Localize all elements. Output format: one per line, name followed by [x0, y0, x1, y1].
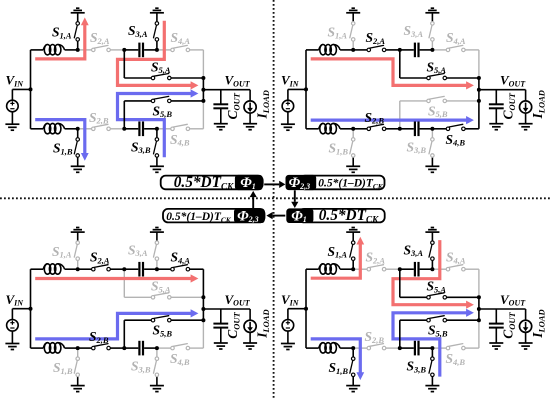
wire: S5B segment, closed (Q1 top-left, phase P1)	[123, 101, 125, 129]
wire: S5B segment, closed (Q4 bottom-right, phase P1)	[399, 320, 401, 348]
current source I_LOAD (Q3 bottom-left, phase P3)	[249, 309, 251, 320]
ground (V_IN) (Q4 bottom-right, phase P1)	[281, 343, 295, 345]
blue current path (Q4 bottom-right, phase P1)	[393, 313, 468, 377]
blue current path (Q2 top-right, phase P2)	[311, 118, 468, 121]
inductor L_A (Q1 top-left, phase P1)	[31, 49, 44, 51]
inductor L_B (Q1 top-left, phase P1)	[31, 128, 44, 130]
capacitor C_OUT (Q3 bottom-left, phase P3)	[220, 309, 222, 324]
switch S5A contacts (Q3 bottom-left, phase P3)	[151, 296, 155, 300]
switch S4A contacts (Q3 bottom-left, phase P3)	[171, 267, 175, 271]
inductor L_B (Q3 bottom-left, phase P3)	[31, 347, 44, 349]
inductor L_B (Q4 bottom-right, phase P1)	[306, 347, 319, 349]
wire: S2B segment, closed (Q3 bottom-left, phase P3)	[78, 347, 94, 349]
switch S1A (Q4 bottom-right, phase P1)	[352, 261, 354, 270]
switch S2B contacts (Q1 top-left, phase P1)	[92, 127, 96, 131]
ground (I_LOAD) (Q1 top-left, phase P1)	[243, 123, 257, 125]
wire: output node (Q1 top-left, phase P1)	[202, 78, 204, 101]
ground (S1B) (Q2 top-right, phase P2)	[346, 165, 360, 167]
ground (S1B) (Q4 bottom-right, phase P1)	[346, 385, 360, 387]
label C_OUT (Q3 bottom-left, phase P3)	[225, 312, 241, 339]
switch S1A (Q1 top-left, phase P1)	[77, 41, 79, 50]
switch S1B (Q3 bottom-left, phase P3)	[77, 348, 79, 357]
wire: input left rail (Q1 top-left, phase P1)	[30, 50, 32, 129]
switch S2B contacts (Q3 bottom-left, phase P3)	[92, 346, 96, 350]
dotted divider horizontal	[0, 197, 550, 199]
label I_LOAD (Q2 top-right, phase P2)	[530, 90, 546, 119]
blue current path (Q1 top-left, phase P1)	[118, 94, 193, 158]
wire: S5A segment, open (Q3 bottom-left, phase P3)	[123, 269, 125, 297]
switch S1B (Q1 top-left, phase P1)	[77, 129, 79, 138]
ground (S3B) (Q4 bottom-right, phase P1)	[425, 385, 439, 387]
wire: S2B segment, open (Q4 bottom-right, phase P1)	[353, 347, 369, 349]
capacitor C_B flying cap (Q3 bottom-left, phase P3)	[124, 347, 138, 349]
ground (C_OUT) (Q1 top-left, phase P1)	[214, 123, 228, 125]
wire: input left rail (Q2 top-right, phase P2)	[305, 50, 307, 129]
ground (C_OUT) (Q2 top-right, phase P2)	[489, 123, 503, 125]
wire: output node (Q3 bottom-left, phase P3)	[202, 297, 204, 320]
current source I_LOAD (Q2 top-right, phase P2)	[525, 90, 527, 101]
switch S4B contacts (Q2 top-right, phase P2)	[446, 127, 450, 131]
wire: S5A segment, closed (Q2 top-right, phase P2)	[399, 50, 401, 78]
wire: input left rail (Q4 bottom-right, phase P1)	[305, 269, 307, 348]
blue current path (Q4 bottom-right, phase P1)	[311, 339, 361, 373]
wire: input left rail (Q3 bottom-left, phase P3)	[30, 269, 32, 348]
switch S4B contacts (Q1 top-left, phase P1)	[171, 127, 175, 131]
switch S3B (Q2 top-right, phase P2)	[431, 129, 433, 138]
clock phase box: 0.5*(1-D)T_CK + PHI2,3 (bottom-left)	[163, 209, 265, 223]
switch S3A (Q3 bottom-left, phase P3)	[156, 261, 158, 270]
capacitor C_A flying cap (Q3 bottom-left, phase P3)	[124, 268, 138, 270]
current source I_LOAD (Q4 bottom-right, phase P1)	[525, 309, 527, 320]
clock phase box: PHI2,3 + 0.5*(1-D)T_CK (top-right)	[300, 176, 385, 190]
ground (S1A) (Q1 top-left, phase P1)	[71, 12, 85, 14]
red current path (Q1 top-left, phase P1)	[118, 21, 193, 86]
label I_LOAD (Q1 top-left, phase P1)	[255, 90, 271, 119]
clock phase box: 0.5*DT_CK + PHI1 (top-left)	[161, 176, 263, 190]
voltage source V_IN (Q4 bottom-right, phase P1)	[287, 309, 289, 320]
wire: output node (Q2 top-right, phase P2)	[478, 78, 480, 101]
switch S4A contacts (Q4 bottom-right, phase P1)	[446, 267, 450, 271]
wire: S2B segment, open (Q1 top-left, phase P1)	[78, 128, 94, 130]
switch S4B contacts (Q4 bottom-right, phase P1)	[446, 346, 450, 350]
ground (C_OUT) (Q3 bottom-left, phase P3)	[214, 342, 228, 344]
switch S2A contacts (Q2 top-right, phase P2)	[367, 48, 371, 52]
ground (S1A) (Q4 bottom-right, phase P1)	[346, 231, 360, 233]
cycle arrow up (PHI2,3 -> PHI1)	[252, 197, 254, 208]
voltage source V_IN (Q2 top-right, phase P2)	[287, 89, 289, 100]
label I_LOAD (Q3 bottom-left, phase P3)	[255, 309, 271, 338]
capacitor C_B flying cap (Q4 bottom-right, phase P1)	[400, 347, 414, 349]
switch S1A (Q3 bottom-left, phase P3)	[77, 261, 79, 270]
voltage source V_IN (Q1 top-left, phase P1)	[11, 89, 13, 100]
wire: S2A segment, closed (Q3 bottom-left, phase P3)	[78, 268, 94, 270]
junction nodes (Q4 bottom-right, phase P1)	[304, 307, 308, 311]
quadrant Q2 top-right, phase P2	[281, 8, 547, 172]
junction nodes (Q3 bottom-left, phase P3)	[29, 307, 33, 311]
ground (S3B) (Q1 top-left, phase P1)	[150, 165, 164, 167]
switch S3B (Q1 top-left, phase P1)	[156, 129, 158, 138]
ground (I_LOAD) (Q3 bottom-left, phase P3)	[243, 342, 257, 344]
wire: S4A segment, open (Q1 top-left, phase P1)	[157, 49, 173, 51]
capacitor C_OUT (Q4 bottom-right, phase P1)	[495, 309, 497, 324]
switch S3A (Q2 top-right, phase P2)	[431, 41, 433, 50]
switch S5A contacts (Q2 top-right, phase P2)	[427, 76, 431, 80]
capacitor C_A flying cap (Q1 top-left, phase P1)	[124, 49, 138, 51]
red current path (Q3 bottom-left, phase P3)	[35, 277, 192, 280]
red current path (Q4 bottom-right, phase P1)	[311, 244, 361, 279]
junction nodes (Q1 top-left, phase P1)	[29, 87, 33, 91]
wire: S2A segment, closed (Q2 top-right, phase P2)	[353, 49, 369, 51]
wire: S4A segment, open (Q2 top-right, phase P2)	[432, 49, 448, 51]
switch S5B contacts (Q4 bottom-right, phase P1)	[427, 318, 431, 322]
switch S2B contacts (Q4 bottom-right, phase P1)	[367, 346, 371, 350]
inductor L_B (Q2 top-right, phase P2)	[306, 128, 319, 130]
switch S3A (Q1 top-left, phase P1)	[156, 41, 158, 50]
junction nodes (Q2 top-right, phase P2)	[304, 87, 308, 91]
cycle arrow down (PHI2,3 -> PHI1)	[294, 190, 296, 202]
blue current path (Q1 top-left, phase P1)	[35, 120, 85, 154]
wire: S2A segment, open (Q1 top-left, phase P1)	[78, 49, 94, 51]
inductor L_A (Q2 top-right, phase P2)	[306, 49, 319, 51]
switch S4A contacts (Q2 top-right, phase P2)	[446, 48, 450, 52]
ground (S1B) (Q3 bottom-left, phase P3)	[71, 385, 85, 387]
clock phase box: PHI1 + 0.5*DT_CK (bottom-right)	[299, 209, 385, 223]
capacitor C_A flying cap (Q4 bottom-right, phase P1)	[400, 268, 414, 270]
ground (I_LOAD) (Q2 top-right, phase P2)	[519, 123, 533, 125]
wire: S4A segment, closed (Q3 bottom-left, phase P3)	[157, 268, 173, 270]
wire: S5A segment, closed (Q1 top-left, phase P1)	[123, 50, 125, 78]
switch S1B (Q2 top-right, phase P2)	[352, 129, 354, 138]
quadrant Q1 top-left, phase P1	[5, 8, 271, 172]
label I_LOAD (Q4 bottom-right, phase P1)	[530, 309, 546, 338]
switch S2A contacts (Q3 bottom-left, phase P3)	[92, 267, 96, 271]
red current path (Q2 top-right, phase P2)	[311, 59, 468, 86]
wire: S4A segment, open (Q4 bottom-right, phase P1)	[432, 268, 448, 270]
cycle arrow left (PHI1 -> PHI2,3)	[273, 215, 286, 217]
blue current path (Q3 bottom-left, phase P3)	[35, 313, 192, 339]
switch S1B (Q4 bottom-right, phase P1)	[352, 348, 354, 357]
label C_OUT (Q1 top-left, phase P1)	[225, 92, 241, 119]
capacitor C_B flying cap (Q2 top-right, phase P2)	[400, 128, 414, 130]
ground (S3A) (Q3 bottom-left, phase P3)	[150, 231, 164, 233]
wire: S2B segment, closed (Q2 top-right, phase P2)	[353, 128, 369, 130]
ground (S3B) (Q2 top-right, phase P2)	[425, 165, 439, 167]
capacitor C_B flying cap (Q1 top-left, phase P1)	[124, 128, 138, 130]
current source I_LOAD (Q1 top-left, phase P1)	[249, 90, 251, 101]
switch S3A (Q4 bottom-right, phase P1)	[431, 261, 433, 270]
wire: S5A segment, closed (Q4 bottom-right, phase P1)	[399, 269, 401, 297]
quadrant Q4 bottom-right, phase P1	[281, 228, 547, 392]
switch S2A contacts (Q1 top-left, phase P1)	[92, 48, 96, 52]
ground (I_LOAD) (Q4 bottom-right, phase P1)	[519, 342, 533, 344]
wire: output node (Q4 bottom-right, phase P1)	[478, 297, 480, 320]
capacitor C_OUT (Q1 top-left, phase P1)	[220, 90, 222, 105]
inductor L_A (Q4 bottom-right, phase P1)	[306, 268, 319, 270]
ground (C_OUT) (Q4 bottom-right, phase P1)	[489, 342, 503, 344]
switch S2A contacts (Q4 bottom-right, phase P1)	[367, 267, 371, 271]
ground (V_IN) (Q2 top-right, phase P2)	[281, 123, 295, 125]
ground (S3A) (Q2 top-right, phase P2)	[425, 12, 439, 14]
switch S5B contacts (Q1 top-left, phase P1)	[151, 99, 155, 103]
ground (V_IN) (Q1 top-left, phase P1)	[5, 123, 19, 125]
switch S4A contacts (Q1 top-left, phase P1)	[171, 48, 175, 52]
label C_OUT (Q4 bottom-right, phase P1)	[501, 312, 517, 339]
wire: S4B segment, closed (Q2 top-right, phase P2)	[432, 128, 448, 130]
switch S5B contacts (Q3 bottom-left, phase P3)	[151, 318, 155, 322]
cycle arrow right (PHI1 -> PHI2,3)	[264, 183, 279, 185]
wire: S4B segment, open (Q3 bottom-left, phase P3)	[157, 347, 173, 349]
switch S2B contacts (Q2 top-right, phase P2)	[367, 127, 371, 131]
capacitor C_A flying cap (Q2 top-right, phase P2)	[400, 49, 414, 51]
quadrant Q3 bottom-left, phase P3	[5, 228, 271, 392]
switch S4B contacts (Q3 bottom-left, phase P3)	[171, 346, 175, 350]
ground (S3B) (Q3 bottom-left, phase P3)	[150, 385, 164, 387]
wire: S5B segment, open (Q2 top-right, phase P2)	[399, 101, 401, 129]
switch S5A contacts (Q1 top-left, phase P1)	[151, 76, 155, 80]
red current path (Q1 top-left, phase P1)	[35, 24, 85, 59]
capacitor C_OUT (Q2 top-right, phase P2)	[495, 90, 497, 105]
voltage source V_IN (Q3 bottom-left, phase P3)	[11, 309, 13, 320]
ground (S1B) (Q1 top-left, phase P1)	[71, 165, 85, 167]
switch S5B contacts (Q2 top-right, phase P2)	[427, 99, 431, 103]
ground (S1A) (Q2 top-right, phase P2)	[346, 12, 360, 14]
ground (S3A) (Q1 top-left, phase P1)	[150, 12, 164, 14]
switch S1A (Q2 top-right, phase P2)	[352, 41, 354, 50]
wire: S4B segment, open (Q4 bottom-right, phase P1)	[432, 347, 448, 349]
switch S3B (Q3 bottom-left, phase P3)	[156, 348, 158, 357]
switch S5A contacts (Q4 bottom-right, phase P1)	[427, 296, 431, 300]
switch S3B (Q4 bottom-right, phase P1)	[431, 348, 433, 357]
wire: S4B segment, open (Q1 top-left, phase P1)	[157, 128, 173, 130]
wire: S2A segment, open (Q4 bottom-right, phase P1)	[353, 268, 369, 270]
label C_OUT (Q2 top-right, phase P2)	[501, 92, 517, 119]
red current path (Q4 bottom-right, phase P1)	[393, 240, 468, 305]
ground (V_IN) (Q3 bottom-left, phase P3)	[5, 343, 19, 345]
wire: S5B segment, closed (Q3 bottom-left, phase P3)	[123, 320, 125, 348]
dotted divider vertical	[273, 0, 275, 399]
ground (S1A) (Q3 bottom-left, phase P3)	[71, 231, 85, 233]
inductor L_A (Q3 bottom-left, phase P3)	[31, 268, 44, 270]
ground (S3A) (Q4 bottom-right, phase P1)	[425, 231, 439, 233]
